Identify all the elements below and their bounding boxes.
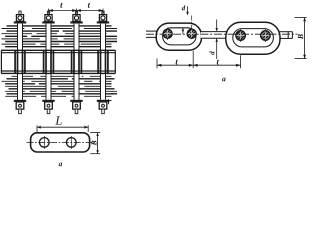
dimension B (plate width) [90, 132, 100, 134]
left entering pin stub [146, 30, 158, 32]
link plate B inner contour [233, 29, 274, 47]
link plate A outer contour [156, 23, 201, 50]
pin P1 head [19, 11, 21, 15]
dimension t t (top pitch) [49, 3, 104, 14]
link A pin hole 2 (pin cross-section, hatched) [187, 29, 196, 38]
pin P3 nut [70, 100, 82, 102]
figure 1: leaf chain plan view, upper plate stack [2, 26, 118, 47]
dimension d (pin diameter, middle) [216, 20, 218, 31]
pin P1 nut [14, 100, 26, 102]
figure 2: chain side view [146, 5, 307, 81]
cut-off next pin mark (bottom right) [107, 99, 112, 104]
plate outline [31, 133, 90, 152]
middle connecting pin [201, 32, 227, 38]
chain centerline [146, 33, 298, 35]
figure 1: lower plate stack [2, 76, 118, 96]
pin P1 shaft [18, 23, 23, 100]
pin P3 shaft [74, 23, 79, 100]
figure 1: middle plate row [1, 50, 115, 74]
label a (figure 2) [222, 78, 225, 82]
pin P3 head [75, 11, 77, 15]
link plate A inner contour [163, 28, 196, 45]
link B pin hole 2 (hatched) [261, 31, 271, 41]
dimension t t (bottom pitch) [156, 59, 158, 69]
pin P2 shaft [46, 23, 51, 100]
link plate B outer contour [226, 22, 280, 54]
dimension L (plate length) [36, 125, 38, 131]
pin P4 head [102, 11, 104, 15]
plate centerline [27, 141, 96, 143]
pin P4 shaft [101, 23, 106, 100]
pin P2 head [47, 11, 49, 15]
plate hole 1 [40, 138, 50, 148]
plate hole 2 [67, 138, 77, 148]
figure 3: single link plate [27, 116, 101, 166]
label a (figure 3) [59, 163, 62, 167]
link A pin hole 1 (pin cross-section, hatched) [163, 29, 172, 38]
dimension B (link width, right) [295, 17, 307, 19]
right exiting pin stub [280, 31, 293, 33]
dimension d (hole diameter, top) [182, 5, 186, 10]
pin P4 nut [97, 100, 109, 102]
hole center marks [164, 30, 270, 40]
link B pin hole 1 (hatched) [236, 31, 246, 41]
pin P2 nut [42, 100, 54, 102]
